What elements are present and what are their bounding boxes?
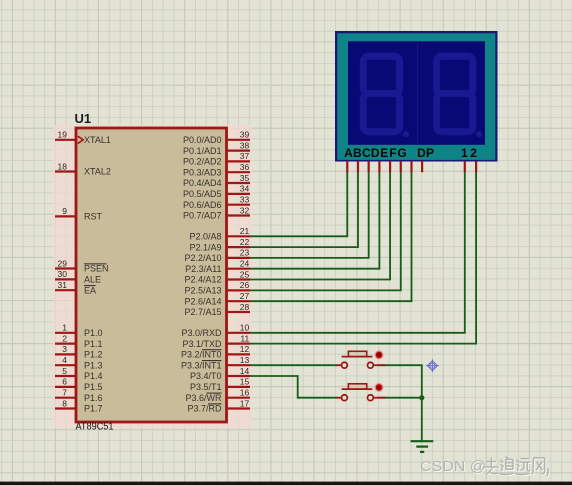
pin 33 P0.6/AD6 stub: [227, 204, 251, 206]
wire P2.3 to display D: [250, 172, 379, 269]
pin 5 P1.4 stub: [55, 375, 76, 377]
pin 10 P3.0/RXD stub: [227, 332, 251, 334]
pin 16 P3.6/WR stub: [227, 397, 251, 399]
pin 7 P1.6 stub: [55, 397, 76, 399]
pin 28 P2.7/A15 stub: [227, 311, 251, 313]
push button 1: [337, 350, 386, 368]
overline P3.7/RD: [208, 403, 222, 405]
svg-text:10: 10: [240, 323, 250, 333]
svg-text:24: 24: [240, 259, 250, 269]
svg-text:P2.2/A10: P2.2/A10: [184, 253, 221, 263]
svg-text:P3.0/RXD: P3.0/RXD: [181, 328, 222, 338]
svg-text:P1.1: P1.1: [84, 339, 103, 349]
svg-text:U1: U1: [75, 111, 92, 126]
pin 37 P0.2/AD2 stub: [227, 160, 251, 162]
svg-text:P2.6/A14: P2.6/A14: [184, 296, 221, 306]
svg-text:P3.6/WR: P3.6/WR: [185, 393, 222, 403]
svg-text:21: 21: [240, 226, 250, 236]
svg-text:12: 12: [240, 344, 250, 354]
svg-text:2: 2: [62, 333, 67, 343]
svg-text:CSDN @: CSDN @: [420, 459, 486, 475]
svg-text:5: 5: [62, 366, 67, 376]
pin 23 P2.2/A10 stub: [227, 257, 251, 259]
svg-text:18: 18: [58, 161, 68, 171]
wire P2.5 to display F: [250, 172, 401, 291]
svg-text:28: 28: [240, 302, 250, 312]
pin 14 P3.4/T0 stub: [227, 375, 251, 377]
XTAL1 clock arrow: [78, 136, 83, 143]
pin 27 P2.6/A14 stub: [227, 300, 251, 302]
svg-text:7: 7: [62, 388, 67, 398]
svg-text:P3.3/INT1: P3.3/INT1: [181, 360, 222, 370]
pin 12 P3.2/INT0 stub: [227, 353, 251, 355]
pin 24 P2.3/A11 stub: [227, 268, 251, 270]
svg-text:XTAL1: XTAL1: [84, 135, 111, 145]
display pin letter labels: [344, 146, 477, 160]
pin 2 P1.1 stub: [55, 343, 76, 345]
svg-text:ALE: ALE: [84, 275, 101, 285]
overline P3.6/WR: [207, 392, 222, 394]
pin 36 P0.3/AD3 stub: [227, 171, 251, 173]
svg-text:1: 1: [62, 323, 67, 333]
svg-text:30: 30: [58, 269, 68, 279]
overline EA: [84, 285, 96, 287]
svg-text:38: 38: [240, 140, 250, 150]
svg-text:EA: EA: [84, 285, 96, 295]
svg-text:19: 19: [58, 130, 68, 140]
7-segment display outer border: [335, 31, 498, 162]
pin 17 P3.7/RD stub: [227, 407, 251, 409]
svg-text:P2.3/A11: P2.3/A11: [185, 264, 221, 274]
digit 2 segments: [437, 56, 483, 137]
svg-text:P3.7/RD: P3.7/RD: [187, 404, 222, 414]
svg-text:P1.4: P1.4: [84, 371, 103, 381]
svg-text:P0.1/AD1: P0.1/AD1: [183, 146, 222, 156]
svg-text:P3.5/T1: P3.5/T1: [190, 382, 222, 392]
svg-text:9: 9: [62, 206, 67, 216]
svg-text:22: 22: [240, 237, 250, 247]
svg-text:AT89C51: AT89C51: [76, 421, 114, 432]
svg-text:13: 13: [240, 355, 250, 365]
svg-text:P3.1/TXD: P3.1/TXD: [182, 339, 222, 349]
svg-text:C: C: [362, 146, 371, 160]
wire button 2 to ground bus: [377, 397, 422, 399]
svg-text:P2.5/A13: P2.5/A13: [184, 286, 221, 296]
svg-text:26: 26: [240, 280, 250, 290]
svg-text:17: 17: [240, 398, 250, 408]
pin 9 RST stub: [55, 215, 76, 217]
pin 32 P0.7/AD7 stub: [227, 214, 251, 216]
svg-text:XTAL2: XTAL2: [84, 167, 111, 177]
svg-text:P0.7/AD7: P0.7/AD7: [183, 211, 222, 221]
pin 1 P1.0 stub: [55, 332, 76, 334]
svg-text:P3.2/INT0: P3.2/INT0: [181, 350, 222, 360]
svg-text:E: E: [380, 146, 388, 160]
svg-text:P2.0/A8: P2.0/A8: [189, 232, 221, 242]
svg-text:31: 31: [58, 280, 68, 290]
svg-text:P0.3/AD3: P0.3/AD3: [183, 167, 222, 177]
svg-text:P2.7/A15: P2.7/A15: [184, 307, 221, 317]
pin 26 P2.5/A13 stub: [227, 289, 251, 291]
svg-text:16: 16: [240, 388, 250, 398]
svg-text:37: 37: [240, 151, 250, 161]
pin 18 XTAL2 stub: [55, 170, 76, 172]
svg-text:P2.1/A9: P2.1/A9: [189, 242, 221, 252]
pin 30 ALE stub: [55, 278, 76, 280]
digit 1 segments: [363, 56, 409, 137]
svg-text:P: P: [426, 146, 434, 160]
svg-text:P1.6: P1.6: [84, 393, 103, 403]
svg-text:3: 3: [62, 344, 67, 354]
display pins A-G, DP, 1, 2: [347, 161, 476, 172]
overline PSEN: [84, 263, 107, 265]
pin 6 P1.5 stub: [55, 386, 76, 388]
pin 34 P0.5/AD5 stub: [227, 193, 251, 195]
pin 35 P0.4/AD4 stub: [227, 182, 251, 184]
ground: [411, 441, 434, 452]
svg-text:39: 39: [240, 130, 250, 140]
pin 8 P1.7 stub: [55, 407, 76, 409]
chip U1 AT89C51 body: [76, 128, 227, 422]
svg-text:P0.4/AD4: P0.4/AD4: [183, 178, 222, 188]
svg-text:P1.7: P1.7: [84, 404, 103, 414]
svg-text:D: D: [371, 146, 380, 160]
svg-text:G: G: [397, 146, 406, 160]
wire P3.0/RXD to display pin 1: [250, 172, 465, 333]
pin 3 P1.2 stub: [55, 353, 76, 355]
svg-text:35: 35: [240, 173, 250, 183]
pin 11 P3.1/TXD stub: [227, 343, 251, 345]
svg-text:36: 36: [240, 162, 250, 172]
digit divider: [417, 41, 419, 145]
svg-text:P0.6/AD6: P0.6/AD6: [183, 200, 222, 210]
svg-text:15: 15: [240, 377, 250, 387]
pin 31 EA stub: [55, 289, 76, 291]
svg-text:P2.4/A12: P2.4/A12: [184, 275, 221, 285]
svg-text:1: 1: [461, 146, 468, 160]
pin 4 P1.3 stub: [55, 364, 76, 366]
svg-text:P1.2: P1.2: [84, 350, 103, 360]
svg-text:P0.2/AD2: P0.2/AD2: [183, 157, 222, 167]
svg-text:A: A: [344, 146, 353, 160]
svg-text:23: 23: [240, 248, 250, 258]
pin 39 P0.0/AD0 stub: [227, 139, 251, 141]
svg-text:P0.0/AD0: P0.0/AD0: [183, 135, 222, 145]
pin 22 P2.1/A9 stub: [227, 246, 251, 248]
pin 19 XTAL1 stub: [55, 139, 76, 141]
svg-text:32: 32: [240, 205, 250, 215]
svg-text:P1.5: P1.5: [84, 382, 103, 392]
7-segment display teal frame: [337, 33, 495, 160]
7-segment display panel: [348, 41, 485, 145]
svg-text:P0.5/AD5: P0.5/AD5: [183, 189, 222, 199]
wire P2.1 to display B: [250, 172, 358, 247]
svg-text:29: 29: [58, 258, 68, 268]
svg-text:8: 8: [62, 398, 67, 408]
svg-text:2: 2: [470, 146, 477, 160]
pin 29 PSEN stub: [55, 267, 76, 269]
svg-text:D: D: [417, 146, 426, 160]
overline P3.2/INT0: [202, 349, 222, 351]
wire P2.0 to display A: [250, 172, 347, 237]
pin 21 P2.0/A8 stub: [227, 235, 251, 237]
svg-text:P3.4/T0: P3.4/T0: [190, 371, 222, 381]
svg-text:6: 6: [62, 377, 67, 387]
svg-text:27: 27: [240, 291, 250, 301]
svg-text:B: B: [353, 146, 362, 160]
svg-text:F: F: [389, 146, 396, 160]
svg-text:PSEN: PSEN: [84, 264, 109, 274]
overline P3.3/INT1: [202, 360, 222, 362]
pin 15 P3.5/T1 stub: [227, 386, 251, 388]
origin marker: [426, 359, 439, 372]
svg-text:33: 33: [240, 195, 250, 205]
svg-text:11: 11: [240, 333, 249, 343]
pin 13 P3.3/INT1 stub: [227, 364, 251, 366]
svg-text:34: 34: [240, 184, 250, 194]
wire P3.4/T0 to button 2: [250, 376, 338, 398]
selection highlight around U1: [53, 125, 252, 429]
window edge strip: [0, 482, 572, 485]
wire P2.6 to display G: [250, 172, 412, 301]
pin 38 P0.1/AD1 stub: [227, 150, 251, 152]
wire button 1 to ground bus: [377, 365, 422, 441]
wire P2.4 to display E: [250, 172, 390, 280]
wire P3.1/TXD to display pin 2: [250, 172, 476, 344]
wire P2.2 to display C: [250, 172, 369, 258]
wire P3.3/INT1 to button 1: [250, 364, 338, 366]
svg-text:4: 4: [62, 355, 67, 365]
svg-text:P1.3: P1.3: [84, 360, 103, 370]
push button 2: [337, 383, 386, 401]
svg-text:25: 25: [240, 269, 250, 279]
svg-text:RST: RST: [84, 212, 103, 222]
svg-text:P1.0: P1.0: [84, 328, 103, 338]
pin 25 P2.4/A12 stub: [227, 278, 251, 280]
svg-text:14: 14: [240, 366, 250, 376]
junction: [419, 395, 424, 400]
